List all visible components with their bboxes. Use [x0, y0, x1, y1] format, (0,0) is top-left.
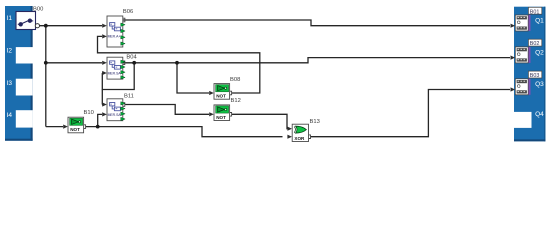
svg-text:B04: B04 — [126, 54, 137, 60]
svg-text:MER.SA: MER.SA — [108, 113, 122, 117]
svg-text:B11: B11 — [124, 93, 134, 99]
svg-text:B03: B03 — [530, 73, 540, 79]
svg-text:B12: B12 — [231, 98, 241, 104]
svg-text:Q4: Q4 — [535, 111, 544, 118]
svg-text:MER.SA: MER.SA — [108, 71, 122, 75]
svg-text:MER.A+: MER.A+ — [108, 35, 121, 39]
svg-text:B01: B01 — [530, 9, 540, 15]
svg-text:I3: I3 — [7, 80, 13, 87]
svg-text:B08: B08 — [230, 77, 240, 83]
svg-text:I2: I2 — [7, 48, 13, 55]
svg-text:I1: I1 — [7, 15, 13, 22]
svg-text:B00: B00 — [33, 7, 43, 13]
svg-text:Q1: Q1 — [535, 17, 544, 24]
svg-text:I4: I4 — [7, 112, 13, 119]
svg-text:B06: B06 — [123, 9, 133, 15]
svg-text:B13: B13 — [310, 119, 320, 125]
svg-text:Q3: Q3 — [535, 81, 544, 88]
svg-text:B10: B10 — [84, 110, 94, 116]
svg-text:Q2: Q2 — [535, 49, 544, 56]
svg-text:B02: B02 — [530, 41, 540, 47]
